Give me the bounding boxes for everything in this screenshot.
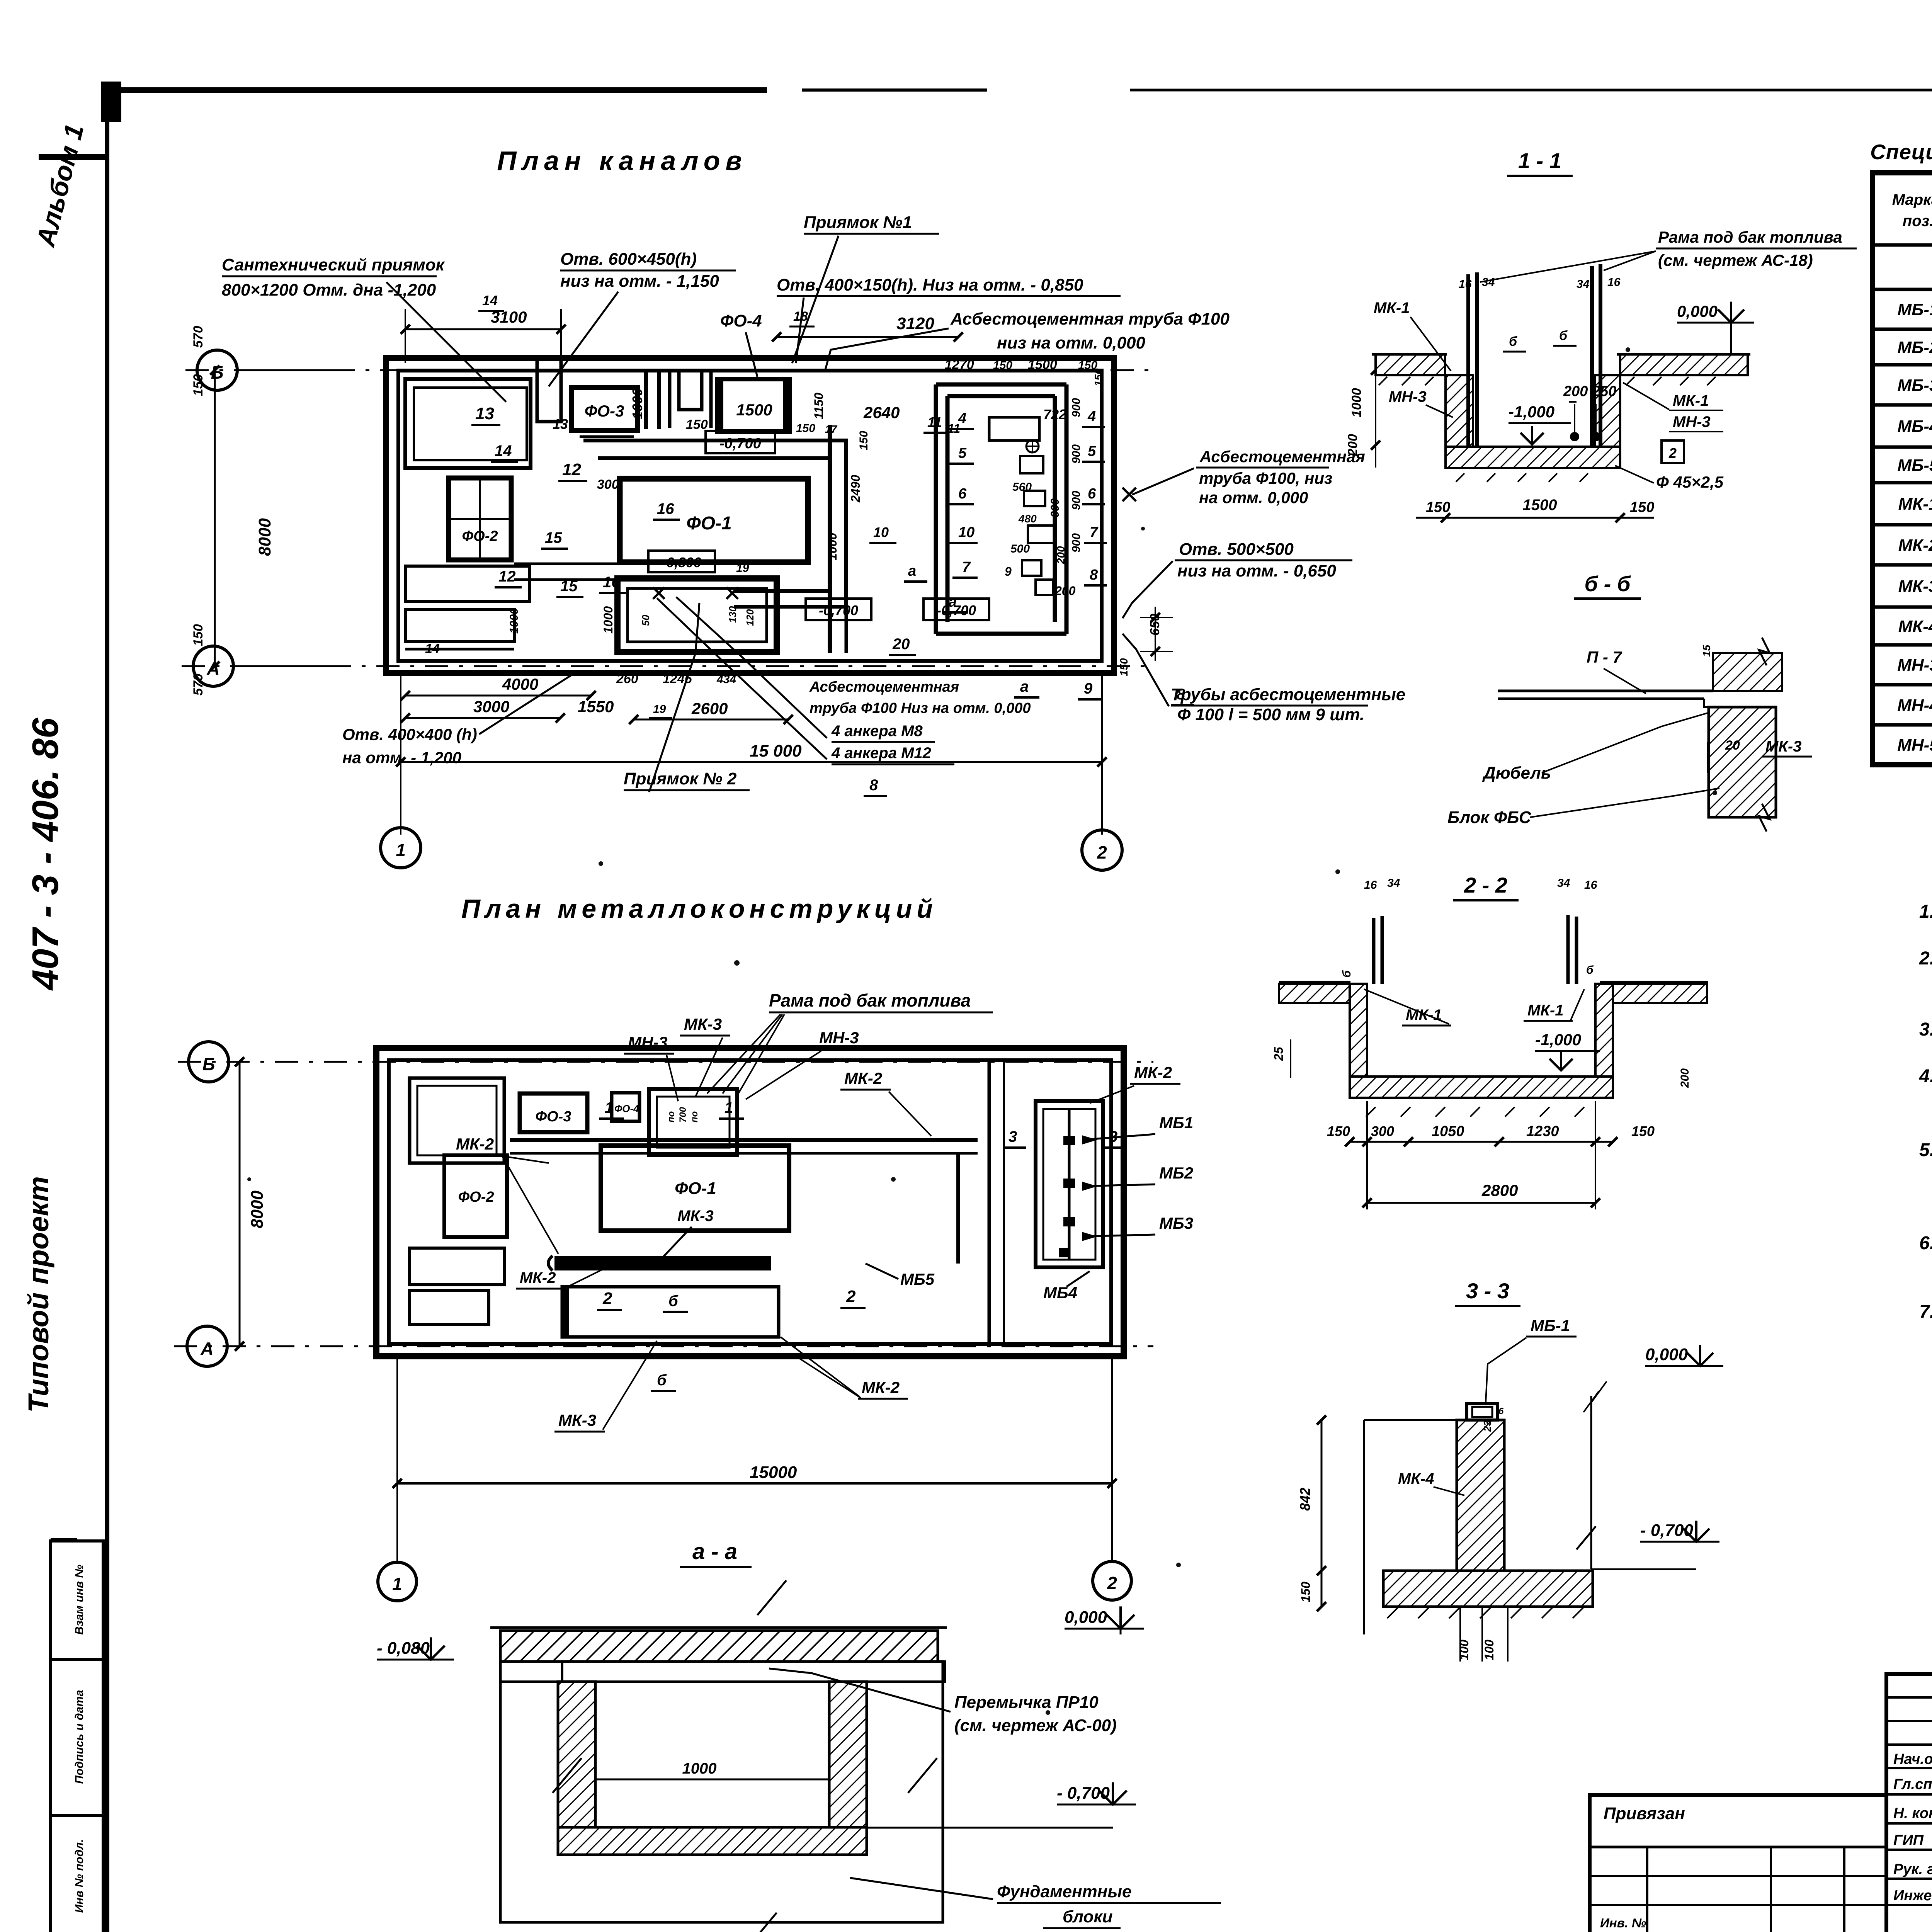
svg-text:а - а: а - а xyxy=(692,1539,737,1564)
svg-text:МБ-2: МБ-2 xyxy=(1898,338,1932,357)
svg-text:10: 10 xyxy=(958,524,975,541)
section 2-2 drawing xyxy=(1279,877,1708,1117)
svg-text:Б: Б xyxy=(202,1054,215,1074)
svg-text:800×1200 Отм. дна -1,200: 800×1200 Отм. дна -1,200 xyxy=(222,281,436,299)
plan2 interior xyxy=(410,1060,1193,1344)
svg-text:Приямок № 2: Приямок № 2 xyxy=(624,769,737,788)
svg-text:1: 1 xyxy=(724,1099,733,1116)
svg-text:15: 15 xyxy=(545,529,562,546)
svg-text:11: 11 xyxy=(947,422,960,435)
svg-text:4: 4 xyxy=(1087,408,1096,425)
svg-text:4 анкера М8: 4 анкера М8 xyxy=(831,723,923,740)
svg-text:МК-2: МК-2 xyxy=(1134,1063,1172,1082)
b-b labels xyxy=(1447,645,1812,827)
svg-text:Ф 100 l = 500 мм 9 шт.: Ф 100 l = 500 мм 9 шт. xyxy=(1177,705,1364,724)
svg-text:9: 9 xyxy=(1084,680,1093,697)
3-3 labels xyxy=(1398,1316,1577,1495)
svg-text:18: 18 xyxy=(793,309,808,324)
svg-text:труба Ф100 Низ на отм. 0,000: труба Ф100 Низ на отм. 0,000 xyxy=(810,700,1031,716)
svg-text:7.: 7. xyxy=(1919,1302,1932,1322)
svg-text:8000: 8000 xyxy=(255,518,274,556)
plan1 right section xyxy=(923,357,1107,634)
svg-text:1000: 1000 xyxy=(1349,388,1364,417)
svg-text:МБ-1: МБ-1 xyxy=(1531,1316,1570,1335)
svg-text:Отв. 500×500: Отв. 500×500 xyxy=(1179,540,1294,559)
plan1 axis circle A xyxy=(193,646,340,686)
svg-text:низ на отм. - 0,650: низ на отм. - 0,650 xyxy=(1177,561,1336,580)
svg-text:150: 150 xyxy=(1426,499,1450,515)
svg-text:900: 900 xyxy=(1070,444,1083,464)
svg-text:А: А xyxy=(200,1338,213,1359)
svg-text:Нач.отд.: Нач.отд. xyxy=(1893,1751,1932,1767)
svg-text:-1,000: -1,000 xyxy=(1509,403,1554,421)
svg-text:2: 2 xyxy=(1097,842,1107,862)
svg-text:15: 15 xyxy=(560,578,578,595)
svg-text:б: б xyxy=(1509,334,1517,349)
svg-text:260: 260 xyxy=(616,672,638,686)
svg-text:570: 570 xyxy=(191,673,206,696)
svg-text:МК-2: МК-2 xyxy=(844,1069,882,1087)
svg-text:-0,300: -0,300 xyxy=(662,554,701,570)
svg-text:7: 7 xyxy=(1090,524,1099,541)
svg-text:34: 34 xyxy=(1557,877,1570,889)
svg-text:12: 12 xyxy=(498,568,516,585)
svg-text:МБ5: МБ5 xyxy=(900,1270,935,1288)
svg-text:1000: 1000 xyxy=(682,1760,717,1777)
svg-text:МК-4: МК-4 xyxy=(1898,617,1932,636)
a-a elevation marks xyxy=(377,1606,1144,1828)
svg-text:МН-3: МН-3 xyxy=(1389,388,1427,405)
svg-text:Асбестоцементная: Асбестоцементная xyxy=(809,679,959,695)
svg-text:34: 34 xyxy=(1482,276,1495,289)
svg-text:б: б xyxy=(1340,970,1353,978)
svg-text:МБ2: МБ2 xyxy=(1159,1164,1193,1182)
svg-text:2640: 2640 xyxy=(863,403,900,422)
svg-text:МН-3: МН-3 xyxy=(1897,656,1932,675)
svg-text:План металлоконструкций: План металлоконструкций xyxy=(461,894,937,923)
plan1 axis lines xyxy=(182,370,1155,666)
svg-text:-0,700: -0,700 xyxy=(819,602,858,618)
svg-text:16: 16 xyxy=(1459,278,1472,291)
svg-text:-0,700: -0,700 xyxy=(937,602,976,618)
svg-text:434: 434 xyxy=(716,673,736,686)
svg-text:300: 300 xyxy=(597,477,619,492)
svg-text:900: 900 xyxy=(1070,533,1083,553)
svg-text:150: 150 xyxy=(1118,658,1130,676)
svg-text:по: по xyxy=(689,1111,700,1122)
svg-text:1500: 1500 xyxy=(736,401,772,419)
svg-text:34: 34 xyxy=(1387,877,1400,889)
svg-text:Рук. гр.: Рук. гр. xyxy=(1893,1861,1932,1878)
svg-text:10: 10 xyxy=(873,524,889,540)
svg-text:14: 14 xyxy=(482,293,498,308)
svg-text:3120: 3120 xyxy=(896,314,934,333)
svg-text:6: 6 xyxy=(1498,1406,1504,1417)
svg-text:ФО-3: ФО-3 xyxy=(535,1109,571,1125)
plan1 bottom dims xyxy=(342,597,1194,835)
left stamp boxes xyxy=(51,1540,103,1932)
svg-text:900: 900 xyxy=(1070,398,1083,417)
svg-text:ФО-4: ФО-4 xyxy=(720,311,762,330)
svg-text:ФО-4: ФО-4 xyxy=(614,1103,639,1114)
svg-text:0,000: 0,000 xyxy=(1645,1345,1688,1364)
svg-text:МК-2: МК-2 xyxy=(1898,536,1932,555)
svg-text:0,000: 0,000 xyxy=(1677,302,1718,320)
svg-text:1000: 1000 xyxy=(629,388,645,419)
svg-text:МН-3: МН-3 xyxy=(628,1033,668,1051)
svg-text:Отв. 400×150(h). Низ на отм.: Отв. 400×150(h). Низ на отм. - 0,850 xyxy=(777,276,1083,294)
svg-text:19: 19 xyxy=(736,562,749,575)
svg-text:по: по xyxy=(666,1111,677,1122)
svg-text:поз.: поз. xyxy=(1903,213,1932,230)
svg-text:а: а xyxy=(1020,678,1029,695)
plan1 mid vertical channel xyxy=(806,425,927,653)
svg-text:1 - 1: 1 - 1 xyxy=(1518,148,1561,173)
a-a labels xyxy=(769,1668,1221,1928)
svg-text:б: б xyxy=(657,1372,667,1389)
svg-text:150: 150 xyxy=(1630,499,1654,515)
svg-text:МК-2: МК-2 xyxy=(456,1135,494,1153)
plan1 axis circles bottom xyxy=(381,828,1122,870)
svg-text:Марка,: Марка, xyxy=(1892,191,1932,208)
svg-text:570: 570 xyxy=(191,326,206,348)
svg-text:8: 8 xyxy=(869,777,878,794)
svg-text:120: 120 xyxy=(744,609,756,626)
svg-text:-1,000: -1,000 xyxy=(1535,1031,1581,1049)
svg-text:МК-1: МК-1 xyxy=(1527,1002,1563,1019)
svg-text:1.: 1. xyxy=(1919,901,1932,922)
plan2 outer walls xyxy=(376,1048,1124,1356)
svg-text:Отв. 400×400 (h): Отв. 400×400 (h) xyxy=(342,725,477,743)
svg-text:150: 150 xyxy=(857,431,870,450)
svg-text:6: 6 xyxy=(958,486,967,502)
svg-text:2.: 2. xyxy=(1919,948,1932,969)
svg-text:б: б xyxy=(1586,964,1594,976)
title block signatures column xyxy=(1886,1674,1932,1932)
svg-text:34: 34 xyxy=(1577,278,1590,291)
svg-text:МК-2: МК-2 xyxy=(520,1269,556,1286)
svg-text:3000: 3000 xyxy=(473,697,509,716)
svg-text:16: 16 xyxy=(1607,276,1621,289)
1-1 labels xyxy=(1374,228,1857,522)
svg-text:низ на отм. - 1,150: низ на отм. - 1,150 xyxy=(560,272,719,291)
svg-text:МБ1: МБ1 xyxy=(1159,1114,1193,1132)
svg-text:Инженер: Инженер xyxy=(1893,1888,1932,1904)
plan2 axis circles bottom xyxy=(378,1561,1131,1601)
svg-text:низ на отм. 0,000: низ на отм. 0,000 xyxy=(997,333,1145,352)
plan2 axis circle A xyxy=(187,1326,227,1366)
svg-text:МН-5: МН-5 xyxy=(1897,736,1932,755)
svg-text:Взам инв №: Взам инв № xyxy=(73,1565,86,1634)
svg-text:Дюбель: Дюбель xyxy=(1482,764,1551,782)
svg-text:ФО-3: ФО-3 xyxy=(585,402,624,420)
plan2 dims xyxy=(235,1057,1117,1563)
svg-text:Ф 45×2,5: Ф 45×2,5 xyxy=(1656,473,1724,491)
svg-text:12: 12 xyxy=(562,460,581,479)
svg-text:3: 3 xyxy=(1109,1128,1117,1145)
svg-text:МК-1: МК-1 xyxy=(1898,495,1932,514)
svg-text:ГИП: ГИП xyxy=(1893,1832,1924,1849)
svg-text:150: 150 xyxy=(1327,1123,1350,1139)
section 1-1 drawing xyxy=(1372,264,1750,482)
svg-text:5: 5 xyxy=(958,445,967,461)
svg-text:13: 13 xyxy=(475,404,494,423)
svg-text:3: 3 xyxy=(1009,1128,1017,1145)
svg-text:на отм. 0,000: на отм. 0,000 xyxy=(1199,488,1308,507)
svg-text:150: 150 xyxy=(1092,368,1104,386)
2-2 labels xyxy=(1272,964,1691,1209)
section 3-3 drawing xyxy=(1297,1345,1723,1662)
svg-text:Гл.спец.: Гл.спец. xyxy=(1893,1776,1932,1793)
svg-text:МК-1: МК-1 xyxy=(1673,392,1709,409)
svg-text:6: 6 xyxy=(1088,486,1096,502)
svg-text:Инв. №: Инв. № xyxy=(1600,1916,1646,1930)
plan1 outer walls xyxy=(386,358,1114,673)
svg-text:1230: 1230 xyxy=(1526,1123,1559,1139)
svg-text:МК-3: МК-3 xyxy=(558,1411,596,1429)
svg-text:600: 600 xyxy=(1049,498,1061,518)
svg-text:-0,700: -0,700 xyxy=(719,435,761,452)
svg-text:2800: 2800 xyxy=(1481,1181,1518,1199)
svg-text:МБ-5: МБ-5 xyxy=(1898,456,1932,475)
svg-text:700: 700 xyxy=(678,1107,688,1122)
svg-text:Блок ФБС: Блок ФБС xyxy=(1447,808,1532,827)
svg-text:Фундаментные: Фундаментные xyxy=(997,1882,1131,1901)
svg-text:842: 842 xyxy=(1297,1488,1313,1511)
svg-text:5.: 5. xyxy=(1919,1140,1932,1160)
svg-text:1000: 1000 xyxy=(825,533,839,560)
svg-text:5: 5 xyxy=(1088,443,1096,459)
svg-text:Рама под бак топлива: Рама под бак топлива xyxy=(769,990,971,1010)
svg-text:25: 25 xyxy=(1272,1046,1286,1061)
svg-text:150: 150 xyxy=(1631,1123,1655,1139)
svg-text:200: 200 xyxy=(1345,434,1360,456)
svg-text:8: 8 xyxy=(1090,567,1098,583)
svg-text:1: 1 xyxy=(392,1574,402,1594)
svg-text:2: 2 xyxy=(1668,445,1677,461)
svg-text:МН-4: МН-4 xyxy=(1897,696,1932,715)
svg-text:Перемычка ПР10: Перемычка ПР10 xyxy=(954,1693,1099,1712)
svg-text:2: 2 xyxy=(846,1287,856,1306)
svg-text:2 - 2: 2 - 2 xyxy=(1464,873,1507,897)
svg-text:Асбестоцементная: Асбестоцементная xyxy=(1199,447,1365,466)
svg-text:МК-2: МК-2 xyxy=(862,1378,900,1396)
svg-text:1000: 1000 xyxy=(601,606,615,634)
svg-text:200: 200 xyxy=(1055,546,1067,565)
svg-text:4.: 4. xyxy=(1919,1066,1932,1087)
svg-text:Приямок №1: Приямок №1 xyxy=(804,213,912,232)
svg-text:150: 150 xyxy=(796,422,815,435)
svg-text:100: 100 xyxy=(1482,1639,1496,1660)
svg-text:МН-3: МН-3 xyxy=(1673,413,1711,430)
svg-text:150: 150 xyxy=(191,374,206,396)
plan1 callouts above xyxy=(222,213,1230,402)
svg-text:2490: 2490 xyxy=(849,475,862,503)
svg-text:9: 9 xyxy=(1005,565,1012,578)
svg-text:19: 19 xyxy=(653,703,666,716)
svg-text:16: 16 xyxy=(1364,879,1377,891)
svg-text:3.: 3. xyxy=(1919,1019,1932,1040)
svg-text:МБ3: МБ3 xyxy=(1159,1214,1193,1232)
svg-text:Спецификация металлоконструкц: Спецификация металлоконструкций замаркир… xyxy=(1870,140,1932,164)
svg-text:1500: 1500 xyxy=(1028,357,1057,372)
svg-text:2: 2 xyxy=(602,1289,612,1308)
svg-text:МБ4: МБ4 xyxy=(1043,1284,1077,1302)
svg-text:7: 7 xyxy=(962,559,971,575)
svg-text:8: 8 xyxy=(1177,686,1185,703)
scan specks xyxy=(247,347,1932,1715)
svg-text:200 250: 200 250 xyxy=(1563,383,1616,400)
svg-text:Типовой проект: Типовой проект xyxy=(22,1176,54,1413)
svg-text:15000: 15000 xyxy=(750,1463,797,1482)
svg-text:Трубы асбестоцементные: Трубы асбестоцементные xyxy=(1171,685,1405,704)
svg-text:6.: 6. xyxy=(1919,1233,1932,1253)
plan2 axis circle B xyxy=(189,1042,229,1082)
svg-text:1270: 1270 xyxy=(945,357,974,372)
svg-text:1: 1 xyxy=(396,840,406,860)
svg-text:ФО-2: ФО-2 xyxy=(458,1189,494,1205)
svg-text:МК-3: МК-3 xyxy=(1765,738,1801,755)
svg-text:14: 14 xyxy=(495,442,512,459)
svg-text:50: 50 xyxy=(640,615,651,626)
svg-text:а: а xyxy=(908,563,916,579)
plan1 axis circle B xyxy=(197,350,344,390)
svg-text:0,000: 0,000 xyxy=(1065,1608,1107,1627)
svg-text:2: 2 xyxy=(1107,1573,1117,1593)
plan1 bottom interior marks xyxy=(425,404,916,656)
svg-text:200: 200 xyxy=(1679,1068,1691,1088)
svg-text:150: 150 xyxy=(1299,1582,1313,1602)
plan1 left dims xyxy=(191,326,274,696)
svg-text:150: 150 xyxy=(191,624,206,646)
svg-text:1: 1 xyxy=(605,1099,613,1116)
svg-text:на отм. - 1,200: на отм. - 1,200 xyxy=(342,748,461,767)
svg-text:МК-4: МК-4 xyxy=(1398,1470,1434,1487)
plan1 interior xyxy=(405,359,900,652)
svg-text:13: 13 xyxy=(553,416,568,432)
svg-text:16: 16 xyxy=(657,500,674,517)
svg-text:МК-1: МК-1 xyxy=(1374,299,1410,316)
svg-text:150: 150 xyxy=(993,359,1012,372)
svg-text:15 000: 15 000 xyxy=(750,742,802,760)
section a-a drawing xyxy=(490,1580,947,1932)
svg-text:План каналов: План каналов xyxy=(497,146,747,176)
section b-b drawing xyxy=(1498,638,1782,832)
notes list xyxy=(1919,901,1932,1322)
svg-text:б: б xyxy=(668,1293,679,1310)
svg-text:Асбестоцементная труба Ф100: Асбестоцементная труба Ф100 xyxy=(950,310,1230,328)
svg-text:23: 23 xyxy=(1481,1420,1493,1432)
svg-text:(см. чертеж АС-00): (см. чертеж АС-00) xyxy=(954,1716,1117,1735)
svg-text:3 - 3: 3 - 3 xyxy=(1466,1279,1509,1303)
plan1 pit anchors xyxy=(601,587,756,634)
svg-text:Н. контр.: Н. контр. xyxy=(1893,1805,1932,1821)
svg-text:МБ-1: МБ-1 xyxy=(1898,300,1932,319)
svg-text:4 анкера М12: 4 анкера М12 xyxy=(831,745,931,762)
svg-text:722: 722 xyxy=(1043,406,1066,422)
svg-text:130: 130 xyxy=(727,606,738,623)
plan1 right callouts xyxy=(1118,355,1405,724)
svg-text:Инв № подл.: Инв № подл. xyxy=(73,1839,86,1913)
svg-text:МК-3: МК-3 xyxy=(1898,577,1932,596)
svg-text:МН-3: МН-3 xyxy=(819,1029,859,1047)
svg-text:20: 20 xyxy=(1725,738,1740,753)
svg-text:ФО-2: ФО-2 xyxy=(462,528,498,544)
plan1 top dims xyxy=(401,293,963,363)
svg-text:1150: 1150 xyxy=(812,393,826,419)
svg-text:200: 200 xyxy=(1054,584,1076,598)
spec table xyxy=(1872,173,1932,765)
svg-text:МК-3: МК-3 xyxy=(684,1015,722,1033)
svg-text:Привязан: Привязан xyxy=(1604,1804,1685,1823)
svg-text:8000: 8000 xyxy=(248,1190,267,1228)
svg-text:407 - 3 - 406. 86: 407 - 3 - 406. 86 xyxy=(25,718,66,991)
svg-text:Сантехнический приямок: Сантехнический приямок xyxy=(222,255,446,274)
svg-text:б: б xyxy=(1559,328,1568,343)
svg-text:Рама под бак топлива: Рама под бак топлива xyxy=(1658,228,1842,246)
svg-text:900: 900 xyxy=(1070,491,1083,510)
svg-text:ФО-1: ФО-1 xyxy=(675,1179,716,1198)
svg-text:500: 500 xyxy=(1010,543,1030,555)
svg-text:Отв. 600×450(h): Отв. 600×450(h) xyxy=(560,250,697,269)
svg-text:560: 560 xyxy=(1012,481,1032,493)
svg-text:2600: 2600 xyxy=(691,699,728,718)
svg-text:МБ-4: МБ-4 xyxy=(1898,417,1932,436)
svg-text:б - б: б - б xyxy=(1584,571,1631,596)
svg-text:11: 11 xyxy=(927,414,942,430)
svg-text:блоки: блоки xyxy=(1063,1907,1113,1926)
plan2 labels xyxy=(452,990,1180,1432)
svg-text:16: 16 xyxy=(1584,879,1597,891)
svg-text:4000: 4000 xyxy=(502,675,538,693)
svg-text:16: 16 xyxy=(603,574,620,591)
svg-text:100: 100 xyxy=(1457,1639,1471,1660)
svg-text:15: 15 xyxy=(1701,645,1713,657)
svg-text:480: 480 xyxy=(1018,513,1037,525)
svg-text:14: 14 xyxy=(425,641,440,656)
svg-text:(см. чертеж АС-18): (см. чертеж АС-18) xyxy=(1658,251,1813,269)
svg-text:П - 7: П - 7 xyxy=(1587,648,1622,666)
svg-text:МК-3: МК-3 xyxy=(677,1207,713,1225)
left margin vertical labels xyxy=(22,121,90,1413)
svg-text:труба Ф100, низ: труба Ф100, низ xyxy=(1199,469,1332,487)
svg-text:1550: 1550 xyxy=(578,697,614,716)
plan2 axis lines xyxy=(174,1062,1153,1346)
svg-text:20: 20 xyxy=(892,636,910,653)
svg-text:- 0,080: - 0,080 xyxy=(377,1639,430,1658)
svg-text:Подпись и дата: Подпись и дата xyxy=(73,1690,86,1784)
svg-text:300: 300 xyxy=(1371,1123,1394,1139)
svg-text:1500: 1500 xyxy=(1523,497,1557,514)
svg-text:ФО-1: ФО-1 xyxy=(686,513,732,534)
title block left part xyxy=(1590,1795,1886,1932)
svg-text:1000: 1000 xyxy=(508,608,520,634)
svg-text:1050: 1050 xyxy=(1432,1123,1464,1139)
svg-text:МБ-3: МБ-3 xyxy=(1898,376,1932,395)
